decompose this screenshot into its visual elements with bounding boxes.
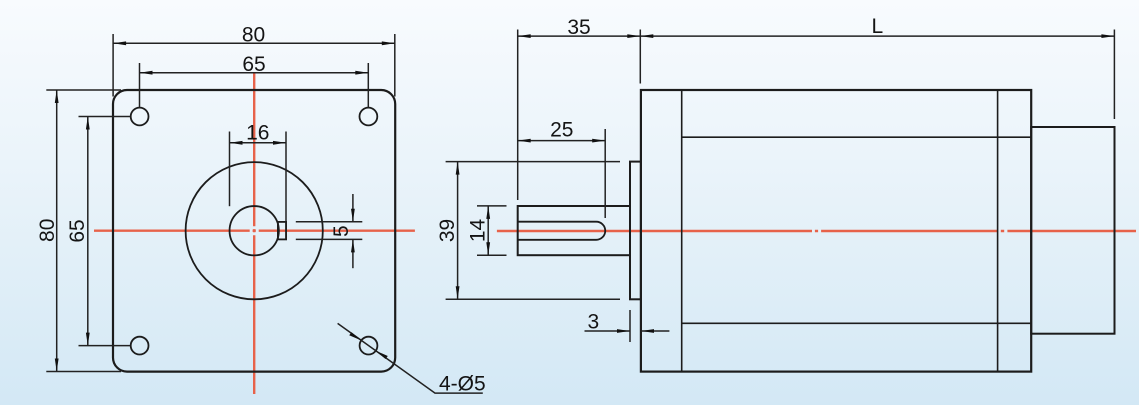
dimension 25 — [518, 129, 606, 218]
dimension 5 (keyway height) — [296, 194, 363, 268]
svg-text:14: 14 — [467, 219, 490, 243]
svg-text:65: 65 — [66, 219, 89, 242]
dimension 3 — [585, 310, 670, 342]
svg-text:25: 25 — [550, 119, 573, 142]
inner vertical front flange — [681, 90, 683, 372]
inner vertical rear flange — [997, 90, 999, 372]
dimension 39 — [446, 162, 620, 300]
dimension 80 top — [113, 34, 395, 97]
svg-text:3: 3 — [588, 310, 600, 333]
mounting hole bottom-left — [131, 337, 149, 355]
flange plate outline — [113, 90, 395, 372]
dimension 35 — [518, 30, 641, 201]
shaft circle — [230, 206, 279, 255]
mounting hole top-right — [360, 108, 378, 126]
svg-text:65: 65 — [242, 53, 265, 76]
pilot boss circle — [186, 162, 323, 299]
motor body outline — [641, 90, 1031, 372]
pilot boss side — [630, 162, 641, 300]
mounting hole top-left — [131, 108, 149, 126]
dimension 14 — [477, 206, 507, 255]
inner horizontal bottom — [682, 322, 1031, 324]
dimension 80 left — [46, 90, 121, 372]
svg-text:4-Ø5: 4-Ø5 — [439, 373, 486, 396]
inner horizontal top — [682, 136, 1031, 138]
svg-text:L: L — [872, 15, 884, 38]
mounting hole bottom-right — [360, 337, 378, 355]
svg-text:35: 35 — [567, 16, 590, 39]
rear housing — [1031, 127, 1114, 334]
svg-text:80: 80 — [242, 24, 265, 47]
centerline horizontal (side view) — [497, 230, 1136, 232]
svg-text:80: 80 — [36, 219, 59, 242]
dimension L — [640, 30, 1114, 120]
centerline vertical (front view) — [253, 74, 255, 395]
shaft rectangle — [518, 206, 630, 255]
leader 4-Ø5 — [338, 323, 483, 393]
keyway slot with round end — [518, 222, 606, 240]
dimension 16 (shaft/key width) — [230, 132, 287, 240]
svg-text:5: 5 — [330, 225, 353, 237]
dimension 65 top — [140, 63, 369, 108]
svg-text:39: 39 — [436, 219, 459, 242]
dimension 65 left — [79, 117, 131, 346]
keyway rectangle — [278, 222, 286, 240]
svg-text:16: 16 — [246, 122, 269, 145]
centerline horizontal (front view) — [94, 229, 415, 231]
